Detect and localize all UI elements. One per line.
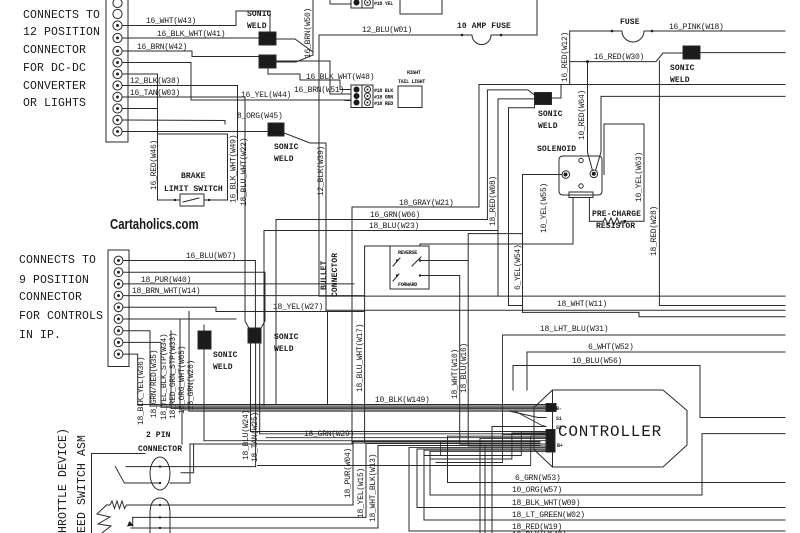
svg-text:18_BLU(W23): 18_BLU(W23) xyxy=(369,222,419,231)
wire solenoid W55 step to right xyxy=(523,312,786,316)
svg-text:CONNECTOR: CONNECTOR xyxy=(138,445,182,454)
svg-text:18_YEL(W15): 18_YEL(W15) xyxy=(357,468,366,518)
svg-text:9 POSITION: 9 POSITION xyxy=(19,274,89,287)
svg-text:WELD: WELD xyxy=(274,155,294,164)
svg-text:16_RED(W12): 16_RED(W12) xyxy=(561,32,570,82)
svg-text:16_BRN(W50): 16_BRN(W50) xyxy=(304,8,313,58)
wire 18_BRN_WHT(W14) xyxy=(123,295,365,297)
wire 18_BLU(W23) riser into SW5 xyxy=(498,99,535,296)
svg-text:16_BLK_WHT(W48): 16_BLK_WHT(W48) xyxy=(306,73,374,82)
svg-text:CONNECTS TO: CONNECTS TO xyxy=(19,254,96,267)
svg-text:SOLENOID: SOLENOID xyxy=(537,145,576,154)
wire 16_BRN(W51) xyxy=(276,61,351,94)
wire pre-charge loop xyxy=(604,124,644,221)
wire 18_BLK_WHT(W09) xyxy=(417,449,785,508)
wire 6_WHT(W52) row xyxy=(527,352,785,390)
wire W26 drop xyxy=(188,312,190,412)
svg-text:CONNECTOR: CONNECTOR xyxy=(23,44,86,57)
svg-text:CONNECTOR: CONNECTOR xyxy=(19,291,82,304)
wire y296 12_BLU(W01) run xyxy=(319,295,785,297)
svg-text:16_BRN(W42): 16_BRN(W42) xyxy=(137,43,187,52)
sonic weld SWB xyxy=(248,328,261,343)
svg-text:IN IP.: IN IP. xyxy=(19,329,61,342)
svg-text:18_BLK_YEL(W36): 18_BLK_YEL(W36) xyxy=(137,357,146,425)
svg-text:6_YEL(W54): 6_YEL(W54) xyxy=(514,244,523,290)
B+ fan wires xyxy=(204,432,546,452)
svg-text:16_BLU(W07): 16_BLU(W07) xyxy=(186,252,236,261)
svg-text:FOR CONTROLS: FOR CONTROLS xyxy=(19,310,103,323)
wire SW6 output to right xyxy=(700,52,785,54)
fuse F2 arc xyxy=(612,31,652,42)
wire 16_BLU(W07) xyxy=(123,261,255,330)
terminal B- blob xyxy=(546,404,556,412)
wire pin2 to sonic weld B xyxy=(123,272,265,329)
svg-text:B-: B- xyxy=(556,406,562,412)
connector P1 oval top xyxy=(150,457,170,490)
sonic weld SW3 xyxy=(268,123,284,136)
connector J2 top edge 2-col xyxy=(351,0,373,8)
wire SWA drop xyxy=(203,349,205,441)
svg-text:12 POSITION: 12 POSITION xyxy=(23,26,100,39)
svg-text:16_GRN(W06): 16_GRN(W06) xyxy=(370,211,420,220)
svg-text:12_BLK(W39): 12_BLK(W39) xyxy=(317,146,326,196)
connector J3 tail light 3-row xyxy=(351,85,373,108)
wire 6_GRN(W53) xyxy=(448,436,786,482)
switch S3 speed switch blade xyxy=(115,467,124,483)
bundle to B+ wires xyxy=(190,442,540,446)
wire 18_RED(W19) xyxy=(409,448,785,531)
svg-text:16_PINK(W18): 16_PINK(W18) xyxy=(669,23,724,32)
svg-text:18_BLU_WHT(W17): 18_BLU_WHT(W17) xyxy=(356,324,365,392)
throttle box outline xyxy=(92,454,146,533)
svg-text:SONIC: SONIC xyxy=(274,143,299,152)
svg-text:CONTROLLER: CONTROLLER xyxy=(558,423,662,441)
svg-text:SONIC: SONIC xyxy=(274,333,299,342)
svg-text:#18 RED: #18 RED xyxy=(374,101,393,107)
terminal S1 xyxy=(510,411,546,417)
wire riser x193 xyxy=(181,444,194,473)
svg-text:16_BLK_WHT(W49): 16_BLK_WHT(W49) xyxy=(230,135,239,203)
svg-text:2 PIN: 2 PIN xyxy=(146,431,171,440)
wire W39 drop to W11 row xyxy=(325,143,327,310)
wire 18_WHT(W11) row xyxy=(326,309,785,311)
wire J2 feed xyxy=(330,3,351,5)
resistor R1 pre-charge zigzag xyxy=(603,218,621,225)
wire 16_RED(W30) with junction dot xyxy=(586,60,589,63)
wire 18_RED(W28) drop xyxy=(659,61,785,306)
wire pin6 to sonic weld B xyxy=(123,318,236,320)
sonic weld SW1 xyxy=(259,32,276,45)
svg-text:18_PUR(W40): 18_PUR(W40) xyxy=(141,276,191,285)
wire 18_YEL(W27) xyxy=(123,307,365,311)
svg-text:BRAKE: BRAKE xyxy=(181,172,206,181)
svg-text:18_BLK_WHT(W09): 18_BLK_WHT(W09) xyxy=(512,499,580,508)
svg-text:18_GRN(W26): 18_GRN(W26) xyxy=(187,360,196,410)
svg-text:CONNECTOR: CONNECTOR xyxy=(331,253,340,297)
wire 16_BRN(W50) riser xyxy=(276,0,313,62)
svg-text:16_RED(W46): 16_RED(W46) xyxy=(150,140,159,190)
wire 12_BLU(W01) xyxy=(501,0,537,35)
wire 16_GRN(W06) row xyxy=(276,220,487,405)
wire 16_YEL(W44) from pin6 xyxy=(122,63,351,101)
svg-text:SONIC: SONIC xyxy=(538,110,563,119)
wire bus y84.5 xyxy=(479,84,785,86)
wire pin11 xyxy=(122,120,225,124)
svg-text:CONNECTS TO: CONNECTS TO xyxy=(23,9,100,22)
svg-text:FUSE: FUSE xyxy=(620,18,640,27)
wire 18_PUR(W40) xyxy=(123,283,354,285)
wire 18_TAN(W25) drop xyxy=(259,343,261,434)
wire 18_LHT_BLU(W31) riser into SW5 xyxy=(509,105,535,306)
wire riser x182 xyxy=(181,410,183,444)
resistor R2 throttle zigzag xyxy=(107,501,161,509)
svg-text:10_BLU(W56): 10_BLU(W56) xyxy=(572,357,622,366)
svg-text:SONIC: SONIC xyxy=(213,351,238,360)
svg-text:18_WHT(W11): 18_WHT(W11) xyxy=(557,300,607,309)
wire SW3 output diagonal to 12_BLK(W39) riser xyxy=(284,133,326,143)
connector J4 pins xyxy=(114,256,123,358)
connector J4 9-position body xyxy=(108,250,129,367)
wire S2 drop xyxy=(491,427,493,533)
svg-text:18_WHT(W10): 18_WHT(W10) xyxy=(451,349,460,399)
sonic weld SWA xyxy=(198,331,211,349)
wire 18_GRAY(W21) riser xyxy=(478,85,480,208)
svg-text:10_YEL(W55): 10_YEL(W55) xyxy=(540,183,549,233)
svg-text:B+: B+ xyxy=(557,443,563,449)
svg-text:18_PUR(W04): 18_PUR(W04) xyxy=(344,448,353,498)
wire to B+ y437.7 xyxy=(266,437,546,439)
svg-text:18_WHT_BLK(W13): 18_WHT_BLK(W13) xyxy=(369,454,378,522)
svg-text:10_RED(W64): 10_RED(W64) xyxy=(578,90,587,140)
svg-text:FOR DC-DC: FOR DC-DC xyxy=(23,62,86,75)
svg-text:SONIC: SONIC xyxy=(670,64,695,73)
wire 16_BLK_WHT(W41) xyxy=(122,37,259,39)
svg-text:10_YEL(W63): 10_YEL(W63) xyxy=(635,152,644,202)
wire 18_GRN(W29) xyxy=(190,443,352,445)
wire pin10 xyxy=(122,108,158,110)
svg-text:S2: S2 xyxy=(556,425,562,431)
svg-text:18_LHT_BLU(W31): 18_LHT_BLU(W31) xyxy=(540,325,608,334)
svg-text:TAIL LIGHT: TAIL LIGHT xyxy=(398,79,425,85)
wire 16_BRN(W42) xyxy=(122,51,259,57)
note: CONNECTS TO 12 POSITION CONNECTOR FOR DC-DC CONVERTER OR LIGHTS xyxy=(23,9,100,110)
svg-text:CONVERTER: CONVERTER xyxy=(23,80,86,93)
wire 18_BLU_WHT(W17) drop xyxy=(364,246,366,442)
svg-text:18_TAN(W25): 18_TAN(W25) xyxy=(251,412,260,462)
svg-text:Cartaholics.com: Cartaholics.com xyxy=(110,215,199,232)
wire W27 drop to bundle xyxy=(327,312,329,405)
svg-text:18_ORG_WHT(W05): 18_ORG_WHT(W05) xyxy=(178,346,187,414)
wire 16_GRN(W06) riser into SW5 xyxy=(487,90,534,219)
note: CONNECTS TO 9 POSITION CONNECTOR FOR CONTROLS IN IP. xyxy=(19,254,103,342)
wire SW2 output down to 16_BLK_WHT(W48) xyxy=(268,68,351,90)
svg-text:18_BRN_WHT(W14): 18_BRN_WHT(W14) xyxy=(132,287,200,296)
svg-text:LIMIT SWITCH: LIMIT SWITCH xyxy=(164,185,223,194)
svg-text:10 AMP FUSE: 10 AMP FUSE xyxy=(457,22,511,31)
wire 12_BLK(W39) vertical xyxy=(325,143,327,311)
svg-text:12_BLU(W01): 12_BLU(W01) xyxy=(362,26,412,35)
wire 18_BLU(W24) drop xyxy=(250,343,252,432)
svg-text:18_RED(W28): 18_RED(W28) xyxy=(650,206,659,256)
svg-text:6_WHT(W52): 6_WHT(W52) xyxy=(588,343,634,352)
wire P2 pin2 row xyxy=(133,444,366,518)
svg-text:WELD: WELD xyxy=(538,122,558,131)
wire 18_LT_GREEN(W02) xyxy=(424,450,785,520)
sonic weld SW2 xyxy=(259,55,276,68)
svg-text:18_GRN/RED(W35): 18_GRN/RED(W35) xyxy=(150,350,159,418)
svg-text:#18 BLK: #18 BLK xyxy=(374,88,393,94)
wire P1 pin1 to W07 riser xyxy=(160,466,170,468)
svg-text:WELD: WELD xyxy=(247,22,267,31)
svg-text:16_RED(W30): 16_RED(W30) xyxy=(594,53,644,62)
terminal B+ blob xyxy=(546,430,555,453)
svg-text:18_GRAY(W21): 18_GRAY(W21) xyxy=(399,199,454,208)
svg-text:REVERSE: REVERSE xyxy=(398,250,417,256)
wire 16_YEL(W44) into tail connector xyxy=(191,99,351,102)
wire pin7 drop xyxy=(123,331,150,406)
solenoid coil tab xyxy=(569,192,593,198)
box at top right of J2 xyxy=(400,0,442,14)
svg-text:16_BLK_WHT(W41): 16_BLK_WHT(W41) xyxy=(157,30,225,39)
terminal S2 xyxy=(492,426,546,428)
wire pin9 drop 18_BLK_YEL(W36) xyxy=(123,354,138,404)
wire SW5 stub to bus xyxy=(552,85,562,99)
wire P2 pin1 row xyxy=(160,442,353,506)
solenoid coil pins xyxy=(572,198,574,245)
connector J1 pins xyxy=(113,0,122,136)
wire solenoid right to bus y96.4 xyxy=(601,95,785,97)
svg-text:8_ORG(W45): 8_ORG(W45) xyxy=(237,112,283,121)
svg-text:18_BLU(W16): 18_BLU(W16) xyxy=(460,343,469,393)
wire S2 top right 18_BLU(W16) xyxy=(420,261,468,447)
svg-text:SONIC: SONIC xyxy=(247,10,272,19)
svg-text:6_GRN(W53): 6_GRN(W53) xyxy=(515,474,561,483)
svg-text:BULLET: BULLET xyxy=(320,260,329,290)
svg-text:EED SWITCH ASM: EED SWITCH ASM xyxy=(76,435,89,533)
svg-text:#18 YEL: #18 YEL xyxy=(374,1,393,7)
svg-text:WELD: WELD xyxy=(274,345,294,354)
wire P2 pin3 row xyxy=(131,446,378,529)
wire 6_YEL(W54) riser from reverse box top xyxy=(420,244,573,246)
svg-text:10_BLK(W149): 10_BLK(W149) xyxy=(375,396,430,405)
wire 10_ORG(W57) xyxy=(430,434,785,495)
controller U1 body xyxy=(553,390,688,467)
wire W148 drop b xyxy=(484,446,486,533)
wire solenoid left terminal 10_YEL(W55) xyxy=(523,175,562,313)
wire wedge row a xyxy=(258,335,547,466)
wire 16_PINK(W18) xyxy=(652,30,785,32)
fuse F1 10 AMP arc xyxy=(462,35,501,45)
sonic weld SW5 xyxy=(535,93,552,105)
svg-text:18_RED(W08): 18_RED(W08) xyxy=(489,176,498,226)
wire 18_BLU(W23) row xyxy=(264,231,498,406)
connector P2 oval bottom xyxy=(150,498,170,533)
wire pin8 drop xyxy=(123,342,161,407)
svg-text:16_YEL(W44): 16_YEL(W44) xyxy=(241,91,291,100)
wire P1 pin2 riser xyxy=(170,444,190,483)
wire 18_GRAY(W21) row xyxy=(352,207,479,443)
wire S2 feed diagonal xyxy=(515,411,546,426)
brake switch S1 element xyxy=(180,194,204,206)
wire 16_RED(W12) riser xyxy=(569,31,571,85)
wire pin12 xyxy=(122,131,268,133)
svg-text:PRE-CHARGE: PRE-CHARGE xyxy=(592,210,641,219)
wire S2 bottom right 18_WHT(W10) xyxy=(420,276,460,445)
svg-text:OR LIGHTS: OR LIGHTS xyxy=(23,97,86,110)
wire W33 drop xyxy=(170,331,172,409)
throttle wiper arrow xyxy=(97,505,111,533)
svg-text:18_LT_GREEN(W02): 18_LT_GREEN(W02) xyxy=(512,511,585,520)
svg-text:WELD: WELD xyxy=(213,363,233,372)
svg-text:HROTTLE DEVICE): HROTTLE DEVICE) xyxy=(57,428,70,533)
svg-text:18_BLU_WHT(W22): 18_BLU_WHT(W22) xyxy=(240,138,249,206)
svg-text:#18 GRN: #18 GRN xyxy=(374,95,393,101)
svg-text:12_BLK(W38): 12_BLK(W38) xyxy=(130,77,180,86)
svg-text:S1: S1 xyxy=(556,416,562,422)
wire SW1 output to 16_BRN(W50) riser xyxy=(276,39,313,52)
wire pin7 to brake switch xyxy=(122,74,158,134)
svg-text:16_WHT(W43): 16_WHT(W43) xyxy=(146,17,196,26)
switch S2 REVERSE-FORWARD box xyxy=(390,246,429,289)
wire fuse feed to 16_PINK(W18) xyxy=(570,30,612,32)
wire 16_TAN(W03) xyxy=(122,97,250,329)
svg-text:FORWARD: FORWARD xyxy=(398,282,417,288)
wire 18_LHT_BLU(W31) row xyxy=(503,334,786,336)
wire 10_RED(W64) drop to solenoid xyxy=(588,62,593,171)
wire W05 drop xyxy=(179,319,181,410)
wire 10_BLU(W56) row xyxy=(513,366,785,418)
svg-text:16_TAN(W03): 16_TAN(W03) xyxy=(130,89,180,98)
svg-text:18_BLU(W24): 18_BLU(W24) xyxy=(242,410,251,460)
connector J1 12-position body xyxy=(106,0,128,142)
svg-text:RESISTOR: RESISTOR xyxy=(596,222,635,231)
brake limit switch box xyxy=(158,134,181,200)
svg-text:10_ORG(W57): 10_ORG(W57) xyxy=(512,486,562,495)
sonic weld SW6 xyxy=(683,46,700,59)
svg-text:WELD: WELD xyxy=(670,76,690,85)
wire 12_BLK(W38) xyxy=(122,86,238,201)
bundle to B- wires xyxy=(138,405,546,412)
svg-text:RIGHT: RIGHT xyxy=(407,70,421,76)
svg-text:18_YEL(W27): 18_YEL(W27) xyxy=(273,303,323,312)
wire 16_WHT(W43) xyxy=(122,11,270,31)
wire W148 drop a xyxy=(479,438,481,533)
